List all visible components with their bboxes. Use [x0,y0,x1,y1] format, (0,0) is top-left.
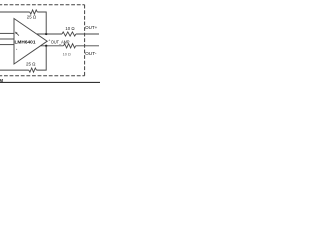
resistor R2 25ohm bottom zigzag [29,68,37,72]
wire output bottom [40,45,63,47]
svg-text:OUT-: OUT- [85,51,97,56]
resistor R1 25ohm top zigzag [30,10,38,14]
wire IN mid [0,38,14,40]
svg-text:LMH6401: LMH6401 [15,40,36,45]
svg-text:OUT+: OUT+ [85,25,98,30]
gain arrow [16,33,19,36]
svg-text:10 Ω: 10 Ω [65,26,75,31]
dashed border right [84,5,86,76]
resistor R3 10ohm top zigzag [62,32,76,36]
svg-text:OUT_AMP: OUT_AMP [51,40,70,45]
op-amp U1 LMH6401 [14,19,47,65]
svg-text:M: M [0,78,3,83]
junction top [45,33,47,35]
wire IN top [0,32,14,34]
svg-text:25 Ω: 25 Ω [27,15,37,20]
bottom rule [0,81,100,83]
wire feedback bottom [36,46,46,70]
dashed border top [0,4,85,6]
wire IN bottom [0,44,14,46]
resistor R4 10ohm bottom zigzag [64,44,76,48]
wire output top [37,33,62,35]
svg-text:25 Ω: 25 Ω [26,61,36,66]
svg-text:10 Ω: 10 Ω [63,51,71,56]
input mark dot [16,49,17,50]
wire to OUT+ [76,33,99,35]
junction bottom [45,45,47,47]
wire feedback top [37,12,46,34]
dashed border bottom [0,75,85,77]
wire to OUT- [76,45,99,47]
